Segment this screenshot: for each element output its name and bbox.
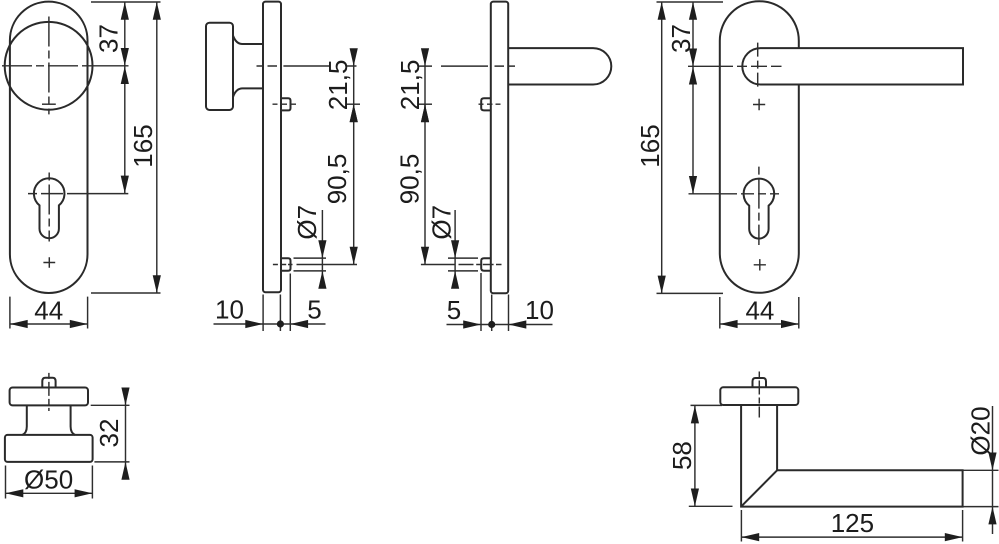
dimension 5 — [290, 295, 321, 329]
dimension diameter 20 — [964, 406, 999, 534]
lever rose — [720, 387, 798, 405]
lever grip side — [508, 48, 611, 84]
svg-text:10: 10 — [525, 295, 554, 325]
dimension 37 — [666, 2, 697, 66]
dimension diameter 7 — [427, 205, 460, 289]
extension line cylinder center — [70, 193, 128, 195]
knob neck profile — [22, 406, 75, 435]
spindle stub — [42, 378, 55, 388]
plate side bar — [491, 2, 508, 294]
euro profile cylinder cutout — [744, 179, 775, 239]
bottom extension lines fig2 — [263, 274, 290, 332]
svg-text:165: 165 — [128, 124, 158, 167]
plus mark upper fixing — [753, 99, 765, 111]
svg-text:21,5: 21,5 — [395, 60, 425, 111]
extension line plate bottom — [91, 292, 161, 294]
lever handle L outline — [741, 405, 963, 507]
dimension origin dot — [488, 321, 495, 328]
euro profile cylinder cutout — [34, 178, 65, 238]
lower lug centerline and extension — [273, 264, 357, 266]
dimension diameter 7 — [292, 205, 327, 289]
miter joint line — [741, 470, 777, 506]
dimension 37 — [94, 2, 129, 66]
lower fixing lug — [281, 258, 291, 270]
dimension 5 — [447, 295, 553, 329]
extension line plate top — [91, 1, 161, 3]
knob circle — [5, 22, 93, 110]
svg-text:37: 37 — [666, 24, 696, 53]
dimension 32 — [91, 388, 130, 480]
tick mark fixing hole — [42, 103, 56, 105]
plate side bar — [263, 2, 281, 293]
dimension 90,5 — [395, 104, 430, 264]
svg-text:Ø20: Ø20 — [966, 406, 996, 455]
dimension 10 — [509, 295, 554, 329]
svg-text:90,5: 90,5 — [322, 154, 352, 205]
cylinder vertical centerline — [48, 173, 50, 242]
svg-text:125: 125 — [831, 508, 874, 538]
dimension 58 — [667, 405, 733, 506]
extension line plate top — [657, 1, 724, 3]
extension line knob center — [88, 65, 129, 67]
dimension lever center to cylinder center — [689, 67, 697, 194]
lever centerline — [758, 372, 760, 418]
dimension knob center to cylinder center — [121, 66, 129, 193]
svg-text:5: 5 — [447, 295, 461, 325]
knob cap side — [206, 23, 233, 110]
lever horizontal centerline — [688, 65, 782, 67]
svg-text:44: 44 — [745, 296, 774, 326]
svg-text:5: 5 — [307, 295, 321, 325]
dimension 44 — [10, 296, 88, 329]
knob vertical centerline — [48, 17, 50, 115]
knob cap profile — [5, 435, 93, 462]
extension lines diameter 7 — [448, 258, 478, 271]
lower fixing lug — [481, 258, 491, 270]
upper fixing lug — [281, 98, 291, 110]
cylinder vertical centerline — [758, 167, 760, 245]
dimension diameter 50 — [6, 465, 93, 499]
lever vertical centerline — [757, 43, 759, 90]
bottom extension lines fig3 — [481, 273, 509, 331]
dimension 21,5 — [323, 48, 360, 122]
knob neck side — [233, 36, 264, 98]
svg-text:21,5: 21,5 — [323, 60, 353, 111]
dimension 165 — [128, 2, 161, 293]
svg-text:37: 37 — [94, 24, 124, 53]
plate outline (stadium) — [720, 1, 799, 293]
svg-text:Ø7: Ø7 — [427, 205, 457, 240]
dimension 10 — [214, 295, 326, 329]
svg-text:165: 165 — [635, 124, 665, 167]
knob rose — [10, 388, 88, 406]
knob centerline — [48, 373, 50, 411]
dimension 21,5 — [395, 48, 432, 122]
svg-text:44: 44 — [34, 296, 63, 326]
handle centerline — [419, 65, 515, 67]
lower lug centerline and extension — [421, 264, 502, 266]
svg-text:Ø50: Ø50 — [24, 465, 73, 495]
dimension origin dot — [277, 320, 284, 327]
svg-text:Ø7: Ø7 — [292, 205, 322, 240]
handle centerline — [257, 65, 357, 67]
spindle stub — [753, 378, 767, 387]
dimension 44 — [720, 296, 799, 329]
knob horizontal centerline — [2, 65, 88, 67]
cylinder horizontal centerline — [28, 193, 70, 195]
svg-text:58: 58 — [667, 441, 697, 470]
svg-text:90,5: 90,5 — [395, 154, 425, 205]
upper lug centerline — [273, 103, 297, 105]
dimension 90,5 — [322, 104, 358, 264]
svg-text:32: 32 — [94, 419, 124, 448]
plate outline (stadium) — [10, 2, 88, 293]
extension line plate bottom — [657, 292, 724, 294]
dimension 125 — [741, 508, 962, 541]
extension lines diameter 7 — [294, 258, 327, 271]
cylinder horizontal centerline and extension — [689, 193, 780, 195]
plus mark lower fixing — [43, 257, 55, 267]
svg-text:10: 10 — [215, 295, 244, 325]
lever handle (white filled) — [742, 48, 963, 84]
upper fixing lug — [481, 98, 491, 110]
dimension 165 — [635, 2, 666, 293]
upper lug centerline — [479, 103, 501, 105]
plus mark lower fixing — [754, 259, 766, 270]
